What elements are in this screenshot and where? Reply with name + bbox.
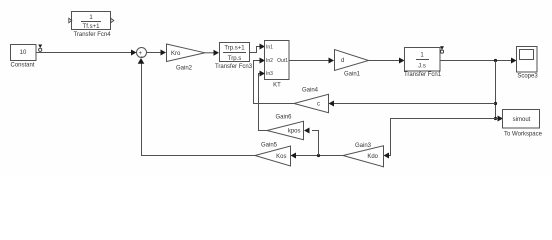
- svg-text:Gain2: Gain2: [176, 66, 193, 72]
- svg-text:Gain5: Gain5: [261, 143, 278, 149]
- sum junction circle: [137, 48, 147, 61]
- svg-text:Trp.s+1: Trp.s+1: [224, 46, 245, 52]
- svg-text:kpos: kpos: [288, 128, 301, 134]
- to-workspace block simout: [503, 110, 543, 138]
- svg-text:Gain3: Gain3: [355, 143, 372, 149]
- svg-text:Constant: Constant: [10, 63, 34, 69]
- junction node at (495,118): [494, 117, 497, 120]
- wire vertical drop from speed line at x=495: [495, 61, 497, 119]
- wire Gain1 to Transfer Fcn1: [369, 60, 401, 62]
- svg-text:Gain1: Gain1: [344, 72, 361, 78]
- svg-text:Tf.s+1: Tf.s+1: [83, 24, 101, 30]
- svg-text:In2: In2: [266, 58, 273, 64]
- small signal marker above Transfer Fcn1 output: [440, 46, 444, 53]
- wire Gain4 output to KT In2: [254, 61, 295, 104]
- svg-text:In3: In3: [266, 71, 273, 77]
- svg-text:Gain4: Gain4: [302, 88, 319, 94]
- wire sum to Gain2: [147, 52, 163, 54]
- wire speed line left segment down to Gain3 input: [387, 119, 496, 156]
- gain Gain6 (kpos), points left: [267, 115, 304, 140]
- junction node at (495,60): [494, 59, 497, 62]
- svg-text:Trp.s: Trp.s: [228, 56, 241, 62]
- svg-text:J.s: J.s: [418, 64, 426, 70]
- svg-text:Out1: Out1: [277, 58, 288, 64]
- constant block "10": [10, 45, 36, 69]
- transfer fcn block Transfer Fcn4 (unconnected, top): [69, 12, 114, 39]
- svg-text:Kdo: Kdo: [367, 154, 378, 160]
- svg-text:Transfer Fcn1: Transfer Fcn1: [404, 72, 442, 78]
- svg-text:Scope3: Scope3: [517, 74, 538, 80]
- junction node at (495,103.5): [494, 102, 497, 105]
- svg-text:simout: simout: [513, 117, 531, 123]
- small signal marker above constant output: [38, 45, 42, 52]
- svg-text:KT: KT: [273, 83, 281, 89]
- svg-text:10: 10: [20, 50, 27, 56]
- junction node at (318,155.5): [317, 154, 320, 157]
- gain Gain1 (d): [335, 50, 369, 78]
- gain Gain3 (Kdo), points left: [343, 143, 384, 167]
- scope block Scope3: [517, 47, 539, 80]
- wire Transfer Fcn1 to Scope3: [440, 60, 513, 62]
- wire Gain4 input from node (495,103.5): [332, 103, 496, 105]
- gain Gain2 (Kro): [167, 44, 206, 72]
- svg-text:Gain6: Gain6: [275, 115, 292, 121]
- wire Gain3 output to Gain5 input: [295, 155, 343, 157]
- wire junction up to Gain6 input: [312, 131, 319, 156]
- gain Gain5 (Kos), points left: [255, 143, 291, 167]
- transfer fcn block Transfer Fcn1 (1/J.s): [404, 48, 442, 79]
- transfer fcn block Transfer Fcn3: [215, 43, 253, 71]
- wire to To Workspace: [496, 118, 500, 120]
- svg-text:Transfer Fcn3: Transfer Fcn3: [215, 64, 253, 70]
- svg-text:Kro: Kro: [171, 51, 181, 57]
- svg-text:Kos: Kos: [276, 154, 286, 160]
- wire constant to sum: [36, 52, 133, 54]
- subsystem block KT: [265, 41, 290, 89]
- wire Transfer Fcn3 to KT In1: [250, 47, 262, 53]
- wire KT Out1 to Gain1: [289, 60, 330, 62]
- wire Gain2 to Transfer Fcn3: [205, 52, 215, 54]
- svg-text:In1: In1: [266, 45, 273, 51]
- wire Gain6 output to KT In3: [259, 74, 268, 131]
- gain Gain4 (c), points left: [294, 88, 329, 113]
- svg-text:d: d: [341, 58, 344, 64]
- svg-text:Transfer Fcn4: Transfer Fcn4: [73, 32, 111, 38]
- svg-text:c: c: [317, 101, 320, 107]
- wire Gain5 output feedback to sum minus input: [142, 62, 256, 156]
- svg-text:To Workspace: To Workspace: [504, 132, 543, 138]
